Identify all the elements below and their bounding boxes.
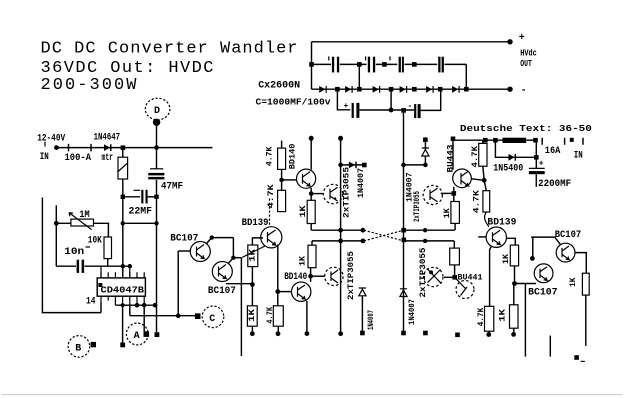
wire long vertical x241 (240, 258, 242, 356)
wire IC out row (115, 304, 156, 306)
transistor Q6 BU443 (453, 169, 472, 188)
junction x233 (231, 256, 235, 260)
wire power base LR (444, 276, 455, 278)
junction rail a (483, 138, 488, 143)
node Q4 top (309, 136, 314, 141)
diode 1N5400 (509, 154, 515, 161)
svg-text:16A: 16A (545, 146, 561, 157)
diode D2 (345, 86, 351, 93)
svg-text:12-40V: 12-40V (37, 134, 65, 145)
svg-text:1K: 1K (502, 254, 511, 264)
capacitor elco1 1000MF (352, 103, 354, 118)
node D stem wire (156, 122, 158, 148)
junction bus UL b (361, 228, 366, 233)
wire Q3 emitter diag (242, 246, 265, 258)
svg-text:B: B (75, 343, 81, 354)
svg-text:BD139: BD139 (487, 218, 516, 229)
cap row wire a (312, 63, 332, 65)
wire Q4 collector (310, 188, 312, 200)
junction diode UR bottom (423, 163, 428, 168)
transistor Q1 BC107 (190, 242, 210, 262)
junction BD140-2 base (275, 289, 280, 294)
svg-text:C: C (209, 314, 215, 325)
svg-text:BU443: BU443 (446, 144, 455, 172)
wire stub x550 (549, 336, 551, 357)
resistor 1K (Q3 base chain upper) (248, 245, 258, 267)
wire stubs into IC top (101, 266, 130, 278)
wire HV+ top rail (312, 41, 511, 43)
capacitor 22MF (123, 196, 140, 198)
svg-text:+: + (344, 102, 349, 111)
wire power base UL (311, 193, 323, 195)
junction bus LL b (361, 239, 366, 244)
terminal dot (120, 343, 125, 348)
transistor pair UL 2xTIP3055 (323, 184, 342, 203)
terminal chain (250, 331, 255, 336)
wire pin to node C row (129, 305, 131, 316)
wire zener to junction (122, 179, 124, 272)
junction out row c (142, 303, 147, 308)
junction x532 (530, 256, 535, 261)
wire vertical x340 (340, 138, 342, 331)
svg-text:2xTIP3055: 2xTIP3055 (413, 191, 422, 222)
junction x340 diode row (338, 163, 343, 168)
wire osc node vertical (55, 205, 57, 266)
svg-text:4.7K: 4.7K (473, 190, 482, 213)
diode D5 (426, 86, 432, 93)
node x340 top (338, 136, 343, 141)
diode 1N4007 UR vertical (424, 142, 426, 150)
wire cap stem (535, 140, 537, 168)
bus upper right (404, 229, 455, 231)
transistor Q2 BC107 (212, 262, 232, 282)
junction diode/cap (534, 155, 539, 160)
wire pin to terminal (122, 305, 124, 342)
wire BD140-2 base (278, 291, 292, 293)
diode D6 (452, 86, 458, 93)
junction row 6 (464, 87, 469, 92)
junction pin chain a (121, 264, 125, 268)
wire BD140 base (282, 179, 297, 181)
svg-text:A: A (134, 331, 140, 342)
svg-text:10K: 10K (88, 235, 102, 246)
svg-text:DC DC Converter Wandler: DC DC Converter Wandler (41, 40, 298, 59)
wire 1K to bus (310, 224, 312, 231)
junction rail b (493, 138, 498, 143)
svg-text:OUT: OUT (520, 59, 532, 69)
terminal tick (44, 142, 46, 147)
wire Q7 emitter (490, 247, 491, 307)
svg-text:BD140: BD140 (288, 143, 297, 169)
wire Q1 collector (207, 238, 212, 244)
junction elco x403 (401, 108, 406, 113)
wire pin to node A (143, 305, 145, 331)
scan artifact bottom line (2, 394, 622, 396)
wire curve to BD139R (485, 212, 489, 227)
svg-text:1N4007: 1N4007 (367, 310, 376, 330)
cap row wire c (376, 63, 397, 65)
transistor Q3 BD139 (261, 227, 282, 248)
wire 4.7K R1 stubs (483, 140, 484, 180)
node input start (54, 145, 59, 150)
transistor pair LL 2xTIP3055 (325, 267, 343, 285)
node A terminal (144, 331, 150, 337)
bus lower left (312, 240, 364, 242)
node diode UR top (423, 137, 428, 142)
LEFTRC (42, 122, 183, 313)
junction row 5 (438, 87, 443, 92)
transistor Q9 BC107 (556, 243, 575, 262)
wire Q9 top feed (531, 237, 560, 245)
svg-text:1K: 1K (298, 256, 307, 266)
gnd tick (581, 360, 585, 362)
wire Q2 emitter row (226, 283, 252, 285)
junction pot/osc (54, 221, 59, 226)
IC4047 (86, 251, 197, 347)
svg-text:2xTIP3055: 2xTIP3055 (419, 247, 428, 297)
junction Q5 collector (308, 274, 313, 279)
wire left feedback vertical (42, 198, 101, 313)
node B terminal (91, 342, 96, 347)
connector IN pin (570, 138, 574, 142)
wire 1K UR stubs (454, 193, 455, 230)
svg-text:BC107: BC107 (208, 286, 236, 297)
wire Q8 emitter drop (524, 284, 526, 357)
svg-text:HVdc: HVdc (520, 49, 537, 59)
svg-text:+: + (519, 33, 525, 44)
junction out row d (153, 303, 158, 308)
transistor Q5 BD140 (292, 282, 311, 301)
MULTIPLIER (256, 33, 537, 118)
junction BD140 base (279, 178, 284, 183)
IC U1 CD4047B body (97, 278, 145, 296)
junction row 3 (389, 87, 394, 92)
terminal gnd right (574, 355, 579, 360)
RIGHTLOW (499, 230, 590, 362)
node A circle (126, 323, 148, 345)
junction power base LR (453, 275, 458, 280)
junction tie right (154, 221, 158, 225)
wire HV- diode row (312, 88, 511, 90)
diode D-in (104, 144, 110, 151)
node D dot (153, 119, 160, 126)
junction bus LR (423, 239, 427, 243)
node C terminal (195, 313, 201, 319)
wire Q6 base (471, 179, 484, 181)
junction 1K R bottom (512, 281, 517, 286)
junction D/input rail (154, 145, 159, 150)
svg-text:BU441: BU441 (458, 274, 483, 283)
node C circle (202, 306, 224, 328)
wire 1K LR stubs (453, 241, 455, 277)
wire cap row to diode row (359, 64, 466, 89)
svg-text:1K: 1K (569, 277, 578, 287)
wire 4.7K LL bottom (277, 326, 279, 331)
diode 1N4007 LL vertical (359, 288, 366, 289)
bus lower right (404, 240, 455, 242)
junction input/zener (121, 145, 126, 150)
capacitor C1 (328, 56, 330, 60)
svg-text:2xTIP3055: 2xTIP3055 (342, 167, 351, 218)
transistor pair LR second (456, 281, 474, 299)
fuse 16A (503, 138, 527, 143)
svg-text:BC107: BC107 (555, 230, 582, 241)
IC top pin stubs (101, 272, 144, 278)
terminal 4.7K R3 (488, 331, 490, 332)
svg-text:BD139: BD139 (242, 218, 269, 229)
junction cap row left (309, 62, 314, 67)
wire tie y223 (123, 222, 157, 224)
connector tick 1 (68, 144, 70, 152)
wire input rail (57, 147, 213, 149)
capacitor 2200MF (529, 167, 545, 169)
LEFTINPUT (37, 132, 212, 164)
diode 1N4007 UL (349, 162, 355, 169)
wire multiplier left vertical (311, 42, 313, 89)
wire BC107 base drop (177, 251, 179, 316)
junction cap row d (412, 62, 417, 67)
terminal HV+ (507, 39, 512, 44)
svg-text:100-A: 100-A (65, 153, 92, 164)
junction Q1 collector (210, 235, 214, 239)
wire elco2 right up (421, 89, 441, 110)
node D circle (145, 98, 170, 120)
wire chain top to Q3 base (252, 238, 263, 245)
svg-text:mtr: mtr (102, 153, 114, 164)
wire pot to 10K (94, 223, 109, 237)
wire diode LL down (361, 296, 363, 331)
node B circle (68, 336, 90, 358)
svg-text:Cx2600N: Cx2600N (258, 80, 300, 91)
resistor 1K LR (450, 248, 460, 265)
svg-text:1N4007: 1N4007 (357, 168, 366, 198)
wire chain bottom (251, 326, 253, 331)
wire 1K far right down (585, 295, 587, 346)
wire cap bottom (535, 174, 537, 187)
RIGHTIN (453, 138, 583, 191)
wire row drop mid (390, 89, 392, 110)
svg-text:2xTIP3055: 2xTIP3055 (347, 251, 356, 300)
wire long vertical x403 (403, 110, 405, 331)
terminal HV- (507, 87, 512, 92)
svg-text:CD4047B: CD4047B (101, 286, 145, 296)
terminal Q5 emitter (305, 331, 310, 336)
terminal LR mid (423, 331, 428, 336)
junction tie left (121, 221, 125, 225)
svg-text:14: 14 (86, 296, 96, 307)
wire to cap 47MF (156, 148, 158, 169)
wire diode branch UL (341, 164, 365, 166)
wire BC107 row feed (515, 283, 537, 285)
pin 1 mark (98, 283, 102, 287)
wire dashed to Q3 (269, 199, 271, 228)
wire power base LL (311, 275, 325, 277)
capacitor C3 (389, 56, 391, 60)
junction Q6 base chain (482, 178, 487, 183)
svg-text:2200MF: 2200MF (538, 179, 571, 190)
terminal dot mid (155, 332, 160, 337)
svg-text:IN: IN (574, 150, 583, 161)
MIDRIGHT (400, 110, 519, 337)
diode D4 (400, 86, 406, 93)
NODES (68, 98, 224, 357)
wire drop x233 (232, 238, 234, 258)
svg-text:BC107: BC107 (528, 288, 558, 299)
svg-text:-: - (408, 102, 413, 111)
IC bottom pin stubs (101, 296, 144, 305)
junction bus UR (423, 228, 427, 232)
transistor Q7 BD139 (486, 227, 506, 247)
junction Q4 collector (309, 191, 314, 196)
svg-text:1K: 1K (299, 205, 308, 217)
transistor Q4 BD140 (297, 169, 316, 188)
junction row 4 (412, 87, 417, 92)
wire power base UR (441, 192, 454, 194)
junction cap row c (382, 62, 387, 67)
svg-text:BD140: BD140 (284, 272, 307, 283)
regulator element (zener) (122, 148, 124, 158)
wire 1K R down (514, 266, 516, 284)
wire 10K down (107, 259, 109, 267)
svg-text:Deutsche Text: 36-50: Deutsche Text: 36-50 (460, 124, 592, 134)
transistor Q8 BC107 (534, 264, 553, 283)
wire cross X lower (364, 230, 404, 241)
svg-text:BC107: BC107 (170, 234, 198, 245)
junction out row b (135, 303, 140, 308)
wire node C row (130, 315, 198, 317)
transistor pair UR 2xTIP3055 (423, 185, 442, 204)
wire Q9 collector right (575, 253, 586, 274)
junction x403 bus upper (401, 228, 406, 233)
wire to diode 1N5400 (495, 140, 536, 157)
node Q6 top (451, 137, 456, 142)
wire collector row (212, 237, 234, 239)
wire cross X upper (364, 230, 404, 241)
MIDLEFT (170, 136, 403, 356)
connector IN ticks (542, 138, 583, 145)
diode D3 (373, 86, 379, 93)
wire 1K R2col stubs (513, 284, 515, 305)
connector tick 2 (90, 144, 92, 152)
junction x403 bus lower (402, 238, 407, 243)
svg-text:4.7K: 4.7K (266, 146, 275, 166)
svg-text:-: - (521, 86, 527, 97)
junction zener/22MF (121, 195, 125, 199)
svg-text:10n: 10n (64, 247, 84, 258)
wire elco1 to elco2 (359, 109, 414, 111)
svg-text:200-300W: 200-300W (41, 76, 138, 95)
potentiometer 1M (71, 219, 94, 226)
capacitor 47MF (150, 168, 163, 170)
svg-text:1M: 1M (79, 210, 90, 221)
wire between 4.7Ks (281, 169, 283, 190)
wire 47MF to node (156, 180, 158, 305)
terminal x340 bottom (338, 331, 343, 336)
junction x403 diode row (401, 163, 406, 168)
junction row 2 (357, 87, 362, 92)
svg-text:1N5400: 1N5400 (493, 164, 523, 175)
svg-text:47MF: 47MF (161, 182, 183, 193)
junction 47MF/22MF (154, 195, 158, 199)
junction pin chain b (128, 264, 132, 268)
junction bus UL a (338, 228, 343, 233)
wire x532 drop (532, 237, 534, 258)
cap row wire e (445, 63, 467, 65)
wire Q5 emitter (306, 301, 308, 332)
junction cap row b (357, 62, 362, 67)
wire Q7 collector (506, 238, 515, 245)
lower-left driver chain vertical (277, 245, 279, 306)
diode 1N4007 LR vertical (400, 289, 407, 297)
wire elco left drop (337, 89, 350, 110)
svg-text:1K: 1K (248, 309, 257, 322)
capacitor C2 (365, 56, 367, 60)
node diode UL end (362, 163, 367, 168)
wire x233 to x241 (233, 257, 241, 259)
wire chain mid (251, 267, 253, 306)
wire 10n to IC (84, 265, 129, 267)
junction bus LL a (338, 239, 343, 244)
junction LR interior (429, 270, 433, 274)
wire diode branch UR (404, 164, 426, 166)
junction node C row (176, 313, 181, 318)
junction fuse out (533, 138, 538, 143)
wire mid to terminal (156, 305, 158, 332)
bus upper left (311, 229, 364, 231)
svg-text:1K: 1K (499, 309, 508, 322)
wire Q4 top rail stub (310, 138, 312, 169)
diode D1 (319, 86, 325, 93)
terminal 4.7K LL (276, 331, 281, 336)
junction row 1 (335, 87, 340, 92)
wire IC pin7 ground loop (100, 302, 102, 312)
junction out row a (121, 303, 125, 307)
svg-text:1N4007: 1N4007 (408, 299, 417, 325)
wire Q7 base stub (478, 236, 486, 238)
wire to pot (56, 222, 71, 224)
terminal x403 bottom (401, 331, 406, 336)
resistor 1K (chain lower) (247, 306, 257, 326)
svg-text:C=1000MF/100v: C=1000MF/100v (256, 98, 332, 108)
wire Q5 collector (310, 268, 312, 282)
wire Q2 top (228, 258, 234, 264)
junction power base UR (452, 191, 457, 196)
wire 12V input rail (453, 139, 503, 141)
transistor pair LR 2xTIP3055 (424, 267, 443, 286)
cap row wire b (340, 63, 367, 65)
svg-text:1N4647: 1N4647 (94, 132, 121, 143)
wire Q1 base (178, 250, 190, 252)
cap row wire d (405, 63, 438, 65)
capacitor elco2 1000MF (414, 104, 416, 118)
capacitor C4 (438, 57, 440, 73)
svg-text:+: + (539, 159, 544, 168)
svg-text:4.7K: 4.7K (267, 184, 276, 208)
terminal LR right (455, 333, 460, 338)
svg-text:IN: IN (40, 152, 49, 163)
wire Q6 emitter to node (453, 187, 455, 194)
resistor 10K (104, 237, 112, 259)
terminal diode LL (360, 331, 365, 336)
junction elco mid (389, 108, 394, 113)
svg-text:22MF: 22MF (129, 207, 153, 218)
wire 1K LL to bus (311, 241, 313, 245)
terminal 1K R2col (511, 332, 516, 337)
svg-text:D: D (154, 106, 160, 117)
junction R-chain mid (250, 282, 255, 287)
wire Q6 top (452, 139, 454, 170)
